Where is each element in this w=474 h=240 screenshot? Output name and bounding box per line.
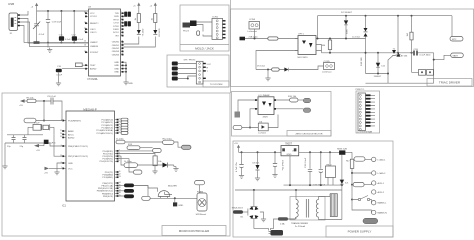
svg-text:CBUS4: CBUS4 xyxy=(112,54,120,56)
svg-text:GND: GND xyxy=(114,72,119,74)
svg-text:+5: +5 xyxy=(150,6,153,8)
svg-text:100uF 25v: 100uF 25v xyxy=(281,160,283,171)
svg-text:1k: 1k xyxy=(135,17,137,20)
svg-text:TEST: TEST xyxy=(90,65,96,67)
svg-text:PC3(ADC3): PC3(ADC3) xyxy=(101,127,113,130)
svg-text:B1: B1 xyxy=(241,216,244,218)
svg-text:15: 15 xyxy=(84,41,86,43)
svg-text:USB: USB xyxy=(8,2,14,6)
svg-text:22p: 22p xyxy=(20,146,24,148)
svg-text:23: 23 xyxy=(121,41,123,43)
svg-text:PLUG: PLUG xyxy=(183,31,189,33)
svg-text:PB7(XTAL2/TOSC2): PB7(XTAL2/TOSC2) xyxy=(68,155,88,158)
svg-text:2: 2 xyxy=(121,25,122,27)
svg-text:DSR#: DSR# xyxy=(113,29,120,31)
svg-text:C12: C12 xyxy=(381,66,386,68)
svg-text:360: 360 xyxy=(322,45,326,47)
svg-text:1K 1/4w: 1K 1/4w xyxy=(257,66,265,68)
svg-text:PC2(ADC2): PC2(ADC2) xyxy=(101,124,113,127)
svg-text:PD6(AIN0): PD6(AIN0) xyxy=(102,174,113,177)
svg-text:PB5(SCK): PB5(SCK) xyxy=(103,196,113,198)
svg-text:MOLD / JACK: MOLD / JACK xyxy=(195,46,214,50)
svg-text:17: 17 xyxy=(84,51,86,53)
svg-text:+5V: +5V xyxy=(36,150,40,152)
svg-text:KBU1451G: KBU1451G xyxy=(232,207,243,209)
svg-text:0.1uF: 0.1uF xyxy=(78,39,84,41)
svg-text:AUX-2: AUX-2 xyxy=(378,191,385,194)
svg-text:C19 10uF: C19 10uF xyxy=(52,21,62,23)
svg-text:5v1: 5v1 xyxy=(345,183,349,185)
svg-text:CON1: CON1 xyxy=(212,16,219,18)
svg-text:600v: 600v xyxy=(347,28,349,34)
svg-text:R: R xyxy=(207,68,209,70)
svg-text:14: 14 xyxy=(121,50,123,52)
svg-text:FT232RL: FT232RL xyxy=(88,78,99,81)
svg-text:TRIAC DRIVER: TRIAC DRIVER xyxy=(439,81,461,85)
svg-text:PC1(ADC1): PC1(ADC1) xyxy=(101,121,113,124)
svg-text:F1: F1 xyxy=(10,33,13,35)
svg-text:RXD: RXD xyxy=(114,16,119,18)
svg-text:3V3OUT: 3V3OUT xyxy=(90,52,99,54)
svg-text:GND: GND xyxy=(128,83,133,85)
svg-text:VCC: VCC xyxy=(68,168,73,170)
svg-text:+5: +5 xyxy=(31,6,34,8)
svg-text:GND: GND xyxy=(287,154,292,156)
svg-text:5: 5 xyxy=(121,15,122,17)
svg-text:16: 16 xyxy=(84,45,86,47)
svg-text:1N4007: 1N4007 xyxy=(374,76,382,78)
svg-text:CBUS0: CBUS0 xyxy=(112,42,120,44)
svg-text:VCC: VCC xyxy=(90,13,95,15)
svg-text:1k: 1k xyxy=(151,17,153,20)
svg-text:+5: +5 xyxy=(133,6,136,8)
svg-text:LOAD-1: LOAD-1 xyxy=(378,158,387,161)
svg-text:21: 21 xyxy=(60,130,62,132)
svg-text:PB1(OC1A): PB1(OC1A) xyxy=(101,185,113,188)
svg-text:C10: C10 xyxy=(57,66,62,68)
svg-text:POWER SUPPLY: POWER SUPPLY xyxy=(348,230,372,234)
svg-text:TRANSFORMER: TRANSFORMER xyxy=(291,222,308,225)
svg-text:CBUS2: CBUS2 xyxy=(112,48,120,50)
svg-text:MAINS-L: MAINS-L xyxy=(378,202,388,205)
svg-text:OSCO: OSCO xyxy=(90,32,97,34)
svg-text:DCD#: DCD# xyxy=(113,32,120,34)
svg-text:19: 19 xyxy=(84,22,86,24)
svg-text:D8 5v1: D8 5v1 xyxy=(253,163,261,165)
svg-text:+5V: +5V xyxy=(19,105,23,107)
svg-text:C15 0.1uF: C15 0.1uF xyxy=(305,157,307,168)
svg-text:SPK/Head: SPK/Head xyxy=(196,214,207,216)
svg-text:TO SYSTEM: TO SYSTEM xyxy=(210,84,223,86)
svg-text:6: 6 xyxy=(121,34,122,36)
svg-text:R10 10k: R10 10k xyxy=(288,96,297,98)
svg-text:4N25: 4N25 xyxy=(263,117,269,119)
svg-text:22: 22 xyxy=(60,136,62,138)
svg-text:AVCC: AVCC xyxy=(68,133,74,136)
svg-text:26: 26 xyxy=(119,126,121,128)
svg-text:PD7(AIN1): PD7(AIN1) xyxy=(102,176,113,179)
svg-text:MINI 1UB: MINI 1UB xyxy=(337,148,347,150)
svg-text:U3: U3 xyxy=(88,7,92,9)
svg-text:12: 12 xyxy=(121,53,123,55)
svg-text:VCC: VCC xyxy=(207,64,212,66)
svg-text:TX-LED: TX-LED xyxy=(143,28,145,36)
svg-text:1: 1 xyxy=(121,12,122,14)
svg-text:GATE: GATE xyxy=(452,55,458,58)
svg-text:22: 22 xyxy=(121,44,123,46)
svg-text:RTS#: RTS# xyxy=(113,19,119,21)
svg-text:C11: C11 xyxy=(59,34,64,36)
svg-text:Lichtmast: Lichtmast xyxy=(322,71,332,74)
svg-text:AGND: AGND xyxy=(68,136,75,139)
svg-text:+5V: +5V xyxy=(234,143,238,145)
svg-text:CON3: CON3 xyxy=(249,19,256,21)
svg-text:CBUS1: CBUS1 xyxy=(112,45,120,47)
svg-text:0.1uF: 0.1uF xyxy=(57,74,63,76)
svg-text:GND: GND xyxy=(178,205,183,207)
svg-text:T: T xyxy=(207,71,209,73)
svg-text:0.1uF 400v: 0.1uF 400v xyxy=(420,54,432,56)
svg-text:MAINS-N: MAINS-N xyxy=(378,212,388,215)
svg-text:RESET#: RESET# xyxy=(90,23,99,25)
svg-text:10k: 10k xyxy=(158,161,162,163)
svg-text:0.1uF: 0.1uF xyxy=(65,39,71,41)
svg-text:CTS#: CTS# xyxy=(113,23,119,25)
svg-text:MOC3020: MOC3020 xyxy=(298,57,309,59)
svg-text:BUZZER: BUZZER xyxy=(168,185,177,187)
svg-text:BT136: BT136 xyxy=(401,55,408,57)
svg-text:PB6(XTAL1/TOSC1): PB6(XTAL1/TOSC1) xyxy=(68,145,88,148)
svg-text:0.5A: 0.5A xyxy=(280,222,285,225)
svg-text:ZERO CROSS DETECTOR: ZERO CROSS DETECTOR xyxy=(295,133,322,135)
svg-text:21B 1/4w: 21B 1/4w xyxy=(249,37,259,39)
svg-text:6: 6 xyxy=(119,160,120,162)
svg-text:10: 10 xyxy=(121,31,123,33)
svg-text:27: 27 xyxy=(119,129,121,131)
svg-text:20: 20 xyxy=(84,12,86,14)
svg-text:USBDM: USBDM xyxy=(90,46,98,48)
svg-text:9: 9 xyxy=(121,28,122,30)
svg-text:24: 24 xyxy=(119,121,121,123)
svg-text:RX-LED: RX-LED xyxy=(159,28,161,36)
svg-text:PC5(ADC5/SCL): PC5(ADC5/SCL) xyxy=(97,132,114,135)
svg-text:OPT1: OPT1 xyxy=(298,33,304,35)
svg-text:PC0(ADC0): PC0(ADC0) xyxy=(101,119,113,122)
svg-text:+5V: +5V xyxy=(44,173,48,175)
svg-text:VCCIO: VCCIO xyxy=(90,16,97,18)
svg-text:MICROCONTROLLER: MICROCONTROLLER xyxy=(179,229,210,233)
svg-text:23: 23 xyxy=(119,118,121,120)
svg-text:C1B: C1B xyxy=(414,49,419,51)
svg-text:OSCI: OSCI xyxy=(90,29,96,31)
svg-text:SPI / PROG: SPI / PROG xyxy=(184,59,196,61)
svg-text:+5 SYSTEM BAR: +5 SYSTEM BAR xyxy=(357,130,373,133)
svg-text:22p: 22p xyxy=(7,146,11,148)
svg-text:13: 13 xyxy=(119,176,121,178)
svg-text:PD4(XCK/T0): PD4(XCK/T0) xyxy=(100,161,114,163)
svg-text:ws 1/4w: ws 1/4w xyxy=(352,37,360,39)
svg-text:4.7uF 25v: 4.7uF 25v xyxy=(236,161,238,172)
svg-text:AUX-1: AUX-1 xyxy=(378,182,385,185)
svg-text:PC6(RESET): PC6(RESET) xyxy=(68,120,81,122)
svg-text:C9 0.1uF: C9 0.1uF xyxy=(47,96,57,98)
svg-text:LOAD-2: LOAD-2 xyxy=(378,172,387,175)
svg-text:C12: C12 xyxy=(72,34,77,36)
svg-text:1k2: 1k2 xyxy=(407,32,409,36)
svg-text:TXD: TXD xyxy=(115,13,120,15)
svg-text:CBUS3: CBUS3 xyxy=(112,51,120,53)
svg-text:DTR#: DTR# xyxy=(113,26,119,28)
svg-text:4.7uF: 4.7uF xyxy=(39,34,45,36)
svg-text:3: 3 xyxy=(121,18,122,20)
svg-text:PC4(ADC4/SDA): PC4(ADC4/SDA) xyxy=(96,129,113,132)
svg-text:GND: GND xyxy=(114,65,119,67)
svg-text:IC1: IC1 xyxy=(62,205,67,208)
svg-text:13: 13 xyxy=(121,47,123,49)
svg-text:11: 11 xyxy=(121,22,123,24)
svg-text:GND: GND xyxy=(114,68,119,70)
svg-text:USBDP: USBDP xyxy=(90,42,98,44)
svg-text:AGND: AGND xyxy=(90,68,97,71)
svg-text:Lichtnet: Lichtnet xyxy=(258,132,266,135)
svg-text:1uF/m: 1uF/m xyxy=(50,143,56,145)
svg-text:20: 20 xyxy=(60,133,62,135)
svg-text:GND: GND xyxy=(68,163,73,165)
svg-text:D2 1N4007: D2 1N4007 xyxy=(341,12,353,14)
svg-text:28: 28 xyxy=(84,31,86,33)
svg-text:27: 27 xyxy=(84,28,86,30)
svg-text:GND: GND xyxy=(114,62,119,64)
svg-text:AREF: AREF xyxy=(68,130,74,133)
svg-text:R18 39R: R18 39R xyxy=(361,57,363,66)
svg-text:9v 220mA: 9v 220mA xyxy=(295,225,305,228)
svg-text:Lichtmast: Lichtmast xyxy=(248,30,258,33)
svg-text:28: 28 xyxy=(119,132,121,134)
